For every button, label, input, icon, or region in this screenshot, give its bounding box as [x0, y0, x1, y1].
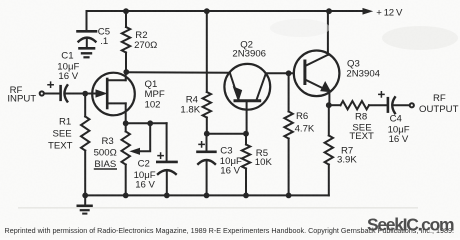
node R6 tap: [286, 70, 292, 76]
capacitor C2: [157, 123, 176, 195]
transistor Q2: [224, 64, 270, 134]
wire +12V arrowhead: [363, 9, 372, 14]
ground (bottom rail): [78, 195, 92, 213]
node Q1 drain junction: [123, 69, 129, 75]
resistor R6: [288, 73, 290, 111]
capacitor C1: [48, 82, 67, 101]
node Q2 base-R5: [243, 131, 249, 137]
wire Q2 collector to Q3 base: [266, 72, 294, 74]
node source junction: [123, 120, 129, 126]
wire top supply rail: [87, 11, 365, 31]
resistor R7: [328, 105, 330, 135]
RF output terminal: [410, 103, 414, 107]
wire input to C1: [44, 93, 59, 95]
capacitor C4: [379, 92, 395, 113]
wire C1 to gate node: [66, 93, 97, 95]
node C3 bottom: [204, 193, 210, 199]
wire bottom rail: [85, 194, 329, 196]
resistor R2: [125, 11, 127, 27]
wire Q1 drain to Q2 emitter: [126, 71, 230, 74]
resistor R8: [329, 104, 341, 106]
node R5 bottom: [243, 193, 249, 199]
RF input terminal: [40, 91, 44, 95]
node R6 bottom: [286, 193, 292, 199]
capacitor C3: [198, 134, 216, 196]
node R4-C3: [204, 131, 210, 137]
resistor R1: [84, 94, 86, 117]
resistor R5: [245, 134, 247, 145]
transistor Q3: [294, 11, 340, 105]
node Q3 emitter junction: [326, 102, 332, 108]
node wiper tap junction: [147, 120, 153, 126]
potentiometer R3: [122, 123, 151, 195]
transistor Q1: [85, 72, 135, 124]
capacitor C5: [78, 31, 97, 47]
wire C4 to output: [393, 104, 409, 106]
node R4 top rail: [204, 8, 210, 14]
ground (under C5): [80, 48, 95, 57]
wire R4/C3 to R5/Q2 base node: [207, 133, 246, 135]
node Q3 collector rail: [326, 8, 332, 14]
node C2 bottom: [164, 193, 170, 199]
resistor R4: [206, 11, 208, 92]
node R2 top rail: [123, 8, 129, 14]
wire source node: [126, 122, 167, 124]
node R3 bottom: [123, 193, 129, 199]
node R1 ground: [82, 193, 88, 199]
node gate/R1 junction: [82, 91, 88, 97]
